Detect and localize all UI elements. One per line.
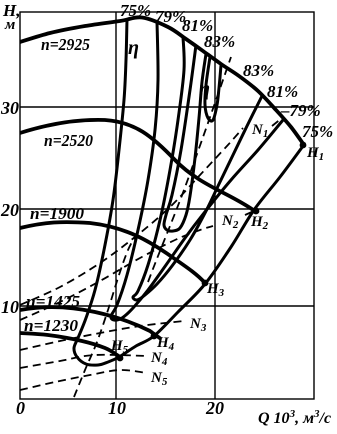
svg-text:n=1230: n=1230 (24, 316, 78, 335)
dot H5 (117, 355, 124, 362)
curve n=2925 (20, 17, 304, 145)
svg-text:Q 103, м3/с: Q 103, м3/с (258, 408, 331, 427)
curve n=2520 (20, 120, 256, 212)
svg-text:n=1425: n=1425 (26, 292, 80, 311)
svg-text:η: η (128, 37, 139, 59)
svg-text:–79%: –79% (280, 101, 321, 120)
dashed curve N2 tick (245, 211, 254, 215)
svg-text:81%: 81% (267, 82, 298, 101)
svg-text:10: 10 (108, 398, 126, 418)
efficiency contour 79% (111, 22, 283, 320)
efficiency contour 81% (133, 37, 262, 300)
svg-text:83%: 83% (204, 32, 235, 51)
svg-text:20: 20 (0, 200, 19, 220)
svg-text:75%: 75% (302, 122, 333, 141)
dashed optimal line D2 (148, 57, 231, 282)
svg-text:0: 0 (16, 398, 25, 418)
dot H1 (300, 142, 307, 149)
dashed curve N1 (20, 128, 243, 305)
efficiency contour eta inner (205, 57, 221, 121)
curve n=1900 (20, 222, 205, 283)
dot H3 (202, 280, 209, 287)
curve n=1425 (20, 307, 161, 339)
svg-text:η: η (199, 78, 210, 100)
grid frame (20, 12, 314, 399)
svg-text:10: 10 (1, 297, 19, 317)
efficiency contour 75% (74, 20, 303, 365)
dot H4 (151, 333, 158, 340)
dashed curve N3 (20, 321, 184, 350)
dashed curve N2 (20, 226, 213, 320)
svg-text:n=2520: n=2520 (44, 131, 93, 150)
svg-text:30: 30 (0, 98, 19, 118)
dashed curve N4 (20, 355, 147, 368)
svg-text:м: м (4, 17, 15, 33)
svg-text:20: 20 (205, 398, 224, 418)
efficiency contour 83% (164, 45, 206, 231)
dashed curve N5 (20, 370, 147, 390)
svg-text:75%: 75% (120, 1, 151, 20)
svg-text:n=1900: n=1900 (30, 204, 84, 223)
svg-text:83%: 83% (243, 61, 274, 80)
dashed optimal line D1 (74, 232, 138, 397)
svg-text:n=2925: n=2925 (41, 35, 90, 54)
dot H2 (253, 208, 260, 215)
dashed curve N1 tick (272, 118, 282, 126)
curve n=1230 (20, 333, 121, 358)
